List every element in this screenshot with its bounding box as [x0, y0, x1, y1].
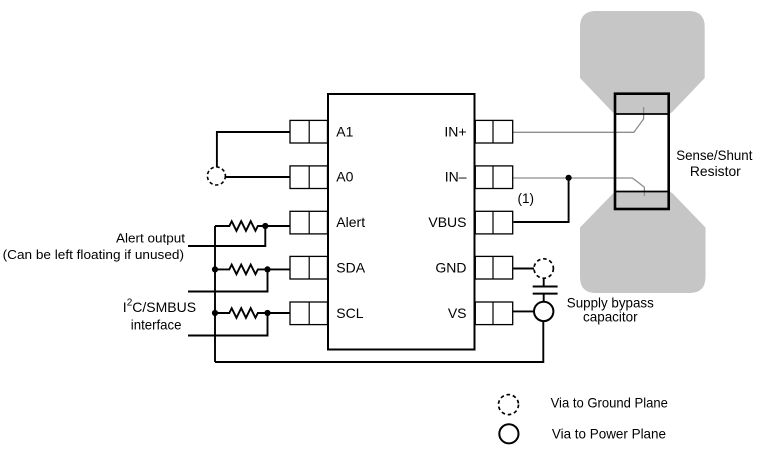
svg-text:Resistor: Resistor [690, 163, 741, 179]
wire Alert output label to node [188, 226, 265, 246]
pull-up rail wire [214, 226, 216, 362]
wire via to capacitor C1 [543, 278, 545, 286]
wire VS to via [513, 310, 534, 312]
svg-text:VS: VS [448, 305, 467, 321]
node dot rail-SCL [212, 310, 218, 316]
svg-text:A1: A1 [336, 123, 353, 139]
IC U1 (INA) body [328, 94, 475, 350]
wire GND to via [513, 268, 534, 270]
svg-text:Sense/Shunt: Sense/Shunt [676, 147, 752, 163]
capacitor C1 (supply bypass) [533, 286, 558, 288]
pin pad A1 [290, 120, 328, 143]
wire capacitor to power via [543, 294, 545, 302]
pin pad VS [475, 302, 512, 325]
sense/shunt resistor R_shunt [615, 94, 669, 209]
shunt resistor bottom terminal line [615, 191, 669, 193]
pin pad VBUS [475, 211, 512, 234]
svg-text:IN–: IN– [445, 169, 467, 185]
bottom supply rail wire [215, 322, 543, 363]
pin pad IN- [475, 166, 512, 189]
pin pad Alert [290, 211, 328, 234]
svg-text:(1): (1) [518, 191, 535, 206]
trace IN+ to shunt [513, 107, 644, 132]
svg-text:GND: GND [435, 259, 466, 275]
node dot rail-SDA [212, 266, 218, 272]
svg-text:SCL: SCL [336, 305, 363, 321]
via to ground plane (GND pin) [534, 259, 553, 278]
shunt resistor top terminal line [615, 113, 669, 115]
svg-text:capacitor: capacitor [583, 309, 638, 325]
pin pad SCL [290, 302, 328, 325]
wire SDA label line to node [188, 269, 268, 291]
node dot IN- / VBUS tap [566, 175, 572, 181]
wire A0 to via [225, 176, 290, 178]
svg-text:VBUS: VBUS [428, 214, 466, 230]
trace IN- to shunt [513, 178, 645, 196]
svg-text:interface: interface [131, 317, 182, 333]
node dot Alert [262, 223, 268, 229]
svg-text:IN+: IN+ [444, 123, 466, 139]
svg-text:SDA: SDA [336, 259, 365, 275]
svg-text:(Can be left floating if unuse: (Can be left floating if unused) [3, 247, 184, 262]
resistor R3 (SCL pull-up) [215, 308, 290, 318]
pin pad A0 [290, 166, 328, 189]
ground plane (top copper pour) [580, 11, 705, 114]
node dot SCL [264, 310, 270, 316]
svg-text:A0: A0 [336, 169, 353, 185]
node dot SDA [264, 266, 270, 272]
via to ground plane (address pins) [207, 167, 225, 185]
wire A1 to via [217, 132, 290, 167]
svg-text:Via to Power Plane: Via to Power Plane [552, 426, 666, 442]
resistor R2 (SDA pull-up) [215, 265, 290, 275]
svg-text:Via to Ground Plane: Via to Ground Plane [551, 395, 668, 411]
svg-text:Alert: Alert [336, 214, 365, 230]
svg-text:Alert output: Alert output [116, 230, 185, 245]
wire VBUS to IN- node [514, 178, 569, 222]
resistor R1 (Alert pull-up) [215, 221, 290, 231]
power plane (bottom copper pour) [580, 192, 706, 294]
via to power plane (VS pin) [534, 302, 553, 321]
pin pad GND [475, 256, 512, 279]
legend via to power plane symbol [499, 424, 518, 443]
pin pad IN+ [475, 120, 512, 143]
svg-text:I2C/SMBUS: I2C/SMBUS [123, 297, 196, 315]
legend via to ground plane symbol [499, 395, 519, 415]
pin pad SDA [290, 256, 328, 279]
wire SCL label line to node [188, 313, 268, 336]
